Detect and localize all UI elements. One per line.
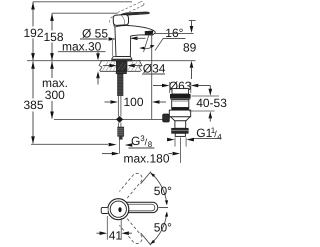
center dot — [118, 207, 121, 212]
extension line (158 level) — [52, 12, 118, 14]
extension line top (192 level) — [33, 1, 132, 3]
rod clamp — [163, 114, 170, 122]
flange — [170, 94, 191, 99]
dimension 89 — [189, 20, 196, 22]
svg-text:Ø34: Ø34 — [143, 62, 166, 76]
D63 extension lines — [169, 82, 171, 93]
max.30 lower arrow — [96, 71, 100, 78]
faucet handle knob — [113, 14, 129, 25]
threaded shank rod — [118, 74, 124, 96]
dimension D63 — [153, 85, 162, 87]
dimension 192 — [32, 2, 34, 60]
pipe end — [175, 133, 185, 136]
svg-text:192: 192 — [24, 26, 44, 40]
pop-up rod vertical line — [151, 34, 153, 119]
dimension 100 — [105, 101, 111, 103]
lever centerline extension — [159, 207, 168, 209]
upper dashed centerline extension — [141, 172, 151, 184]
deck cross-section left band — [99, 61, 117, 72]
taper — [171, 117, 191, 121]
svg-text:300: 300 — [45, 88, 65, 102]
extension line max.300 bottom — [54, 118, 166, 120]
dashed lever raised up 50 — [119, 173, 142, 198]
svg-text:385: 385 — [24, 98, 44, 112]
knob-body connectors — [113, 25, 116, 27]
handle lever bar — [125, 202, 158, 212]
svg-text:G: G — [131, 134, 140, 148]
dimension 41 — [106, 216, 108, 240]
svg-text:100: 100 — [124, 95, 144, 109]
supply hose — [118, 96, 121, 127]
extension line deck level — [27, 60, 196, 62]
neck — [172, 89, 189, 94]
o-ring band — [171, 108, 189, 111]
extension line 385 bottom / G3/8 leader line — [31, 143, 108, 145]
svg-text:50°: 50° — [154, 184, 172, 198]
G3/8 threaded nipple — [118, 127, 124, 136]
faucet base plinth — [112, 57, 132, 61]
nut — [172, 128, 189, 133]
lower 50 arc — [150, 213, 166, 245]
dimension 40-53 — [192, 95, 220, 97]
hose end knot — [116, 116, 123, 123]
upper 50 arc — [150, 173, 166, 205]
aerator — [145, 31, 154, 36]
faucet lever raised (dashed) — [110, 2, 144, 25]
svg-text:41: 41 — [109, 228, 123, 242]
G1 1/4 extension lines — [174, 138, 176, 147]
svg-text:Ø 55: Ø 55 — [82, 26, 108, 40]
pop-up drain assembly — [163, 89, 191, 137]
dimension 385 — [32, 61, 34, 143]
svg-text:50°: 50° — [154, 221, 172, 235]
collar — [169, 110, 190, 117]
dimension 158 — [51, 13, 53, 60]
dimension max.180 — [102, 153, 112, 155]
extension line aerator level — [155, 32, 194, 34]
left tab — [101, 207, 108, 213]
svg-text:40-53: 40-53 — [196, 96, 227, 110]
svg-text:158: 158 — [44, 30, 64, 44]
dimension D34 — [103, 65, 109, 67]
svg-text:89: 89 — [183, 40, 197, 54]
faucet body and spout — [115, 26, 155, 57]
cylinder — [172, 100, 189, 108]
faucet lever (side view, closed) — [120, 12, 149, 17]
deck cross-section right band — [128, 61, 143, 72]
svg-text:max.180: max.180 — [124, 151, 170, 165]
knob circle — [108, 199, 129, 220]
mounting shank block below deck — [116, 61, 127, 71]
svg-text:4: 4 — [217, 132, 222, 141]
drain centerline extension — [180, 138, 182, 164]
dashed lever down 50 — [119, 219, 142, 244]
lower dashed centerline extension — [141, 233, 151, 245]
tailpipe — [175, 121, 186, 129]
dimension max.300 — [51, 61, 53, 118]
D55 right arrow — [130, 37, 138, 41]
